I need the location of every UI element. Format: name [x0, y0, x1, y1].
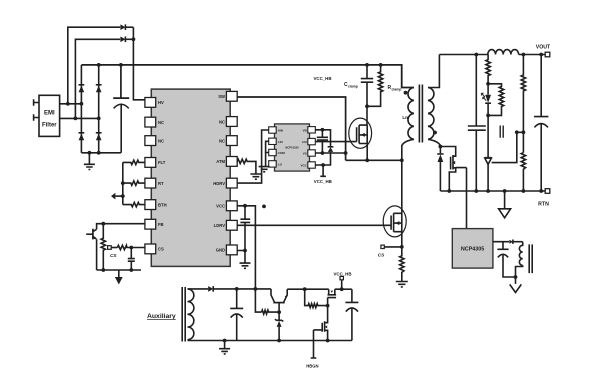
transformer T1 core	[419, 85, 422, 143]
resistor R-RT	[121, 181, 145, 185]
capacitor C-out bulk	[534, 55, 548, 193]
wire sync drain	[440, 147, 455, 154]
op-amp U2 driver body	[275, 124, 310, 171]
wire filter output N	[60, 117, 99, 119]
svg-text:CS: CS	[158, 247, 164, 252]
resistor R-shunt	[400, 247, 404, 281]
capacitor C-VCCHB	[345, 289, 358, 340]
ground secondary arrow	[499, 191, 511, 218]
U1 pin FLT	[145, 158, 166, 168]
U1 pin HV	[145, 98, 164, 108]
wire LDRV gate line	[237, 224, 391, 226]
wire HB to low-side drain	[401, 160, 403, 206]
svg-text:EMI: EMI	[44, 111, 55, 117]
svg-text:VCC: VCC	[216, 204, 225, 209]
svg-text:ATM: ATM	[216, 159, 225, 164]
svg-text:GND: GND	[216, 248, 225, 253]
transistor Q1 high-side MOSFET	[349, 118, 372, 160]
ground aux2 arrow	[510, 277, 522, 293]
svg-text:RTN: RTN	[538, 202, 549, 208]
svg-text:NC: NC	[158, 120, 164, 125]
svg-text:HV: HV	[158, 100, 164, 105]
diode ZD zener	[275, 312, 283, 342]
svg-text:NCP51530: NCP51530	[285, 145, 299, 149]
svg-text:FB: FB	[158, 222, 164, 227]
op-amp U1 LLC controller body	[151, 89, 230, 266]
svg-text:VOUT: VOUT	[536, 45, 551, 51]
U1 pin NC right2	[219, 117, 237, 127]
svg-text:clamp: clamp	[392, 87, 402, 91]
svg-text:NC: NC	[219, 119, 225, 124]
capacitor C-clamp	[344, 65, 373, 108]
AC input terminal N	[34, 114, 39, 120]
wire VOUT rail	[439, 53, 545, 57]
svg-text:Auxiliary: Auxiliary	[147, 313, 176, 320]
U1 pin GND	[216, 245, 238, 255]
wire FB line	[97, 222, 145, 230]
node VCC_HB label upper	[313, 76, 331, 81]
ground shunt	[396, 282, 408, 287]
node isolation bars	[500, 126, 503, 138]
inductor L-aux winding	[514, 242, 523, 279]
bridge leg A wire	[80, 65, 84, 153]
svg-text:HO: HO	[302, 140, 307, 144]
resistor R-gate	[305, 289, 330, 307]
diode D-opto LED	[481, 84, 491, 118]
EMI filter block	[39, 95, 60, 136]
U2 pin VS	[303, 150, 316, 156]
wire FB local rail	[97, 269, 141, 271]
diode DA2	[79, 133, 85, 141]
wire aux bottom rail	[188, 339, 352, 343]
op-amp U3 NCP4305	[452, 229, 493, 269]
resistor R-CS filter	[117, 245, 144, 249]
node Auxiliary label	[147, 313, 176, 320]
node CS input terminal	[108, 246, 118, 250]
U1 pin ATM	[216, 157, 237, 167]
node HBGN stub	[306, 330, 318, 369]
transformer T2 core bars	[529, 244, 532, 273]
svg-text:SW: SW	[218, 94, 225, 99]
svg-text:FLT: FLT	[158, 160, 166, 165]
svg-text:HBGN: HBGN	[306, 364, 318, 369]
bridge leg B wire	[97, 65, 101, 153]
svg-text:VCC_HB: VCC_HB	[314, 179, 332, 184]
ground aux	[219, 341, 230, 354]
inductor L-out	[488, 50, 519, 55]
capacitor C-aux	[230, 289, 243, 341]
U1 pin HDRV	[213, 178, 237, 188]
U2 pin VB	[303, 127, 316, 133]
U2 pin LIN	[269, 138, 283, 144]
transistor Q6 HB drive MOSFET	[314, 306, 330, 343]
wire VB node	[315, 128, 330, 147]
diode DB1	[96, 85, 102, 93]
resistor R-ATM	[237, 159, 256, 173]
svg-text:LIN: LIN	[278, 140, 283, 144]
ground bridge	[84, 153, 95, 170]
transformer T3 core bars	[182, 287, 185, 342]
svg-text:COM: COM	[278, 151, 286, 155]
svg-text:VCC_HB: VCC_HB	[313, 76, 331, 81]
wire U3 VCC feed	[493, 241, 509, 243]
resistor R-FB	[101, 224, 105, 272]
diode DA1	[79, 85, 85, 93]
U2 pin HIN	[269, 127, 283, 133]
capacitor C-CS filter	[128, 248, 135, 272]
transistor Q2 low-side MOSFET	[383, 206, 406, 247]
wire RTN rail	[440, 189, 545, 193]
wire base feed	[255, 289, 261, 312]
transistor Q3 sync rectifier	[449, 154, 466, 192]
wire HV feed down to HV pin	[132, 27, 145, 100]
node CS terminal	[378, 245, 404, 258]
svg-text:Lm: Lm	[402, 115, 409, 120]
wire emitter rail	[287, 287, 329, 291]
diode D-sync body	[437, 147, 443, 192]
U2 pin COM	[269, 149, 286, 155]
svg-text:VCC_HB: VCC_HB	[333, 272, 351, 277]
wire COM tie	[266, 153, 269, 167]
wire half-bridge node rail	[346, 158, 404, 162]
transistor Q5 pass MOSFET	[328, 289, 342, 305]
wire HO gate line	[315, 141, 356, 143]
svg-text:CS: CS	[110, 253, 117, 258]
U1 pin BTH	[145, 200, 167, 210]
wire U2 VCC stub	[315, 165, 326, 176]
capacitor C-aux2	[497, 242, 515, 277]
diode DB2	[96, 133, 102, 141]
svg-text:CS: CS	[378, 253, 385, 258]
svg-text:clamp: clamp	[348, 84, 358, 88]
svg-text:HDRV: HDRV	[213, 181, 225, 186]
wire GND pin	[237, 251, 245, 263]
transistor Q4 NPN pass	[271, 289, 288, 312]
resistor R-FLT	[123, 160, 145, 164]
resistor R-base	[262, 310, 281, 314]
resistor R-div upper	[521, 55, 525, 153]
diode TL431 shunt	[485, 115, 492, 193]
wire HV sense riser from L	[66, 27, 120, 106]
U1 pin LDRV	[214, 220, 238, 230]
capacitor C1 bulk	[113, 65, 129, 153]
node RTN terminal	[538, 189, 550, 208]
ground U2 COM	[259, 167, 270, 172]
svg-text:VCC: VCC	[300, 164, 307, 168]
U1 pin NC left3	[145, 136, 164, 146]
node arrow left	[111, 193, 123, 200]
wire bridge negative rail	[81, 151, 121, 155]
svg-text:NCP4305: NCP4305	[461, 247, 484, 253]
transistor Q-opto feedback	[86, 229, 97, 270]
svg-text:HIN: HIN	[278, 129, 283, 133]
wire LIN tie	[266, 141, 269, 152]
wire drive to controller	[466, 168, 468, 229]
resistor R-comp parallel	[488, 84, 504, 116]
ground FB arrow	[115, 270, 123, 285]
capacitor C-boot	[317, 130, 328, 155]
wire HDRV to HIN	[237, 130, 269, 183]
U1 pin FB	[145, 219, 164, 229]
diode D-aux2	[509, 240, 522, 244]
svg-text:BTH: BTH	[158, 202, 167, 207]
node VOUT terminal	[536, 45, 551, 57]
node VCC_HB terminal aux	[333, 272, 351, 292]
resistor R-BTH	[123, 202, 145, 206]
wire SW to half-bridge node	[237, 97, 345, 160]
node VCC_HB label lower	[314, 179, 332, 184]
inductor secondary winding	[428, 55, 442, 149]
wire HV sense riser from N	[74, 39, 121, 120]
U1 pin RT	[145, 178, 164, 188]
wire clamp to drain	[366, 106, 368, 125]
wire VCC node	[237, 204, 266, 289]
wire rail to cap	[342, 288, 352, 290]
svg-text:Filter: Filter	[42, 123, 57, 129]
diode D-aux	[188, 286, 271, 292]
U2 pin LO	[269, 161, 283, 167]
svg-text:LO: LO	[278, 162, 283, 166]
inductor Lm primary winding	[402, 88, 414, 161]
svg-text:LDRV: LDRV	[214, 223, 226, 228]
U1 pin NC right3	[219, 136, 237, 146]
wire DC bus rail	[81, 63, 414, 88]
U1 pin CS	[145, 244, 164, 254]
inductor aux winding	[188, 289, 194, 340]
svg-text:NC: NC	[219, 138, 225, 143]
diode D-boot	[321, 147, 333, 167]
wire RT bias vertical	[121, 162, 125, 204]
capacitor C-out film	[468, 55, 486, 193]
U1 pin SW	[218, 91, 237, 101]
resistor R-div lower	[521, 153, 525, 193]
svg-text:NC: NC	[158, 138, 164, 143]
capacitor C-VCC	[240, 206, 250, 253]
resistor R-clamp	[367, 65, 401, 106]
resistor R-LED upper	[486, 55, 490, 86]
svg-text:RT: RT	[158, 181, 164, 186]
node CS label	[110, 253, 117, 258]
wire TL431 ref	[492, 130, 526, 162]
svg-text:VS: VS	[303, 152, 307, 156]
U1 pin VCC	[216, 201, 237, 211]
wire filter output L	[60, 103, 82, 105]
U2 pin VCC	[300, 162, 315, 168]
AC input terminal L	[34, 99, 39, 105]
ground U1	[240, 263, 251, 268]
ground ATM	[250, 174, 261, 179]
diode D2 HV sense	[120, 37, 133, 43]
U2 pin HO	[302, 138, 315, 144]
wire VS line	[315, 151, 347, 155]
U1 pin NC left2	[145, 117, 164, 127]
diode D1 HV sense	[120, 24, 133, 30]
